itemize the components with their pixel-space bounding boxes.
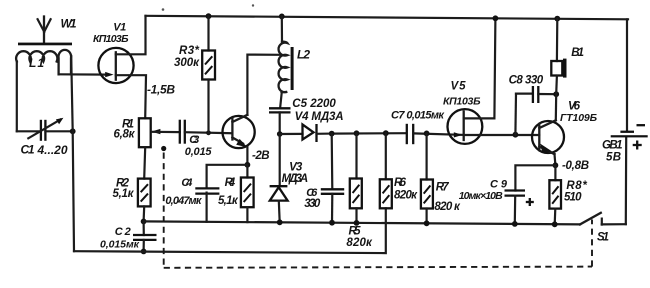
- svg-text:C5 2200: C5 2200: [292, 98, 336, 110]
- resistor R7 820k: [421, 131, 461, 227]
- svg-text:V6: V6: [568, 101, 581, 113]
- svg-text:V1: V1: [113, 22, 126, 34]
- capacitor C6 330: [304, 131, 344, 226]
- capacitor C7 0,015mk: [391, 110, 445, 145]
- svg-text:510: 510: [564, 192, 582, 204]
- wire battery to switch: [625, 137, 628, 224]
- svg-text:МД3А: МД3А: [282, 173, 309, 185]
- svg-text:C1: C1: [21, 143, 35, 157]
- resistor R5 820k: [346, 130, 373, 249]
- svg-text:10мк×10В: 10мк×10В: [459, 190, 503, 202]
- detector bus wire: [332, 132, 406, 135]
- capacitor C4 0,047mk: [165, 177, 219, 222]
- wire C7 to V5 gate: [414, 133, 464, 135]
- capacitor C2 0,015mk: [100, 219, 157, 255]
- resistor R2 5,1k: [113, 147, 151, 221]
- diode V4 MD3A: [280, 111, 344, 142]
- resistor R8* 510: [549, 165, 587, 227]
- transistor V2: [223, 115, 255, 148]
- wire V1 source down to R1: [116, 75, 146, 118]
- wire C3 to V2 base: [185, 132, 232, 133]
- wire coil tap down to node and ground rail: [71, 56, 73, 131]
- diode V3 MD3A: [270, 134, 309, 225]
- svg-text:330: 330: [304, 198, 321, 210]
- svg-text:L1: L1: [29, 56, 44, 70]
- svg-text:5,1к: 5,1к: [218, 195, 239, 207]
- svg-text:W1: W1: [61, 17, 77, 31]
- wire coil to V1 gate: [59, 73, 108, 75]
- node C8 left / base: [513, 132, 519, 138]
- wire tank bottom to C1: [17, 130, 40, 132]
- wire V2 collector to L2 tap: [247, 55, 280, 115]
- svg-text:C8 330: C8 330: [509, 75, 544, 87]
- svg-text:-2В: -2В: [252, 150, 270, 162]
- switch S1: [580, 213, 626, 244]
- antenna W1: [38, 17, 77, 43]
- svg-text:S1: S1: [597, 231, 609, 243]
- node R3 bottom: [206, 130, 211, 135]
- svg-text:ГТ109Б: ГТ109Б: [560, 112, 598, 124]
- inductor L1 with ferrite core: [16, 43, 72, 75]
- node V5 drain / top rail junction: [493, 15, 499, 21]
- svg-text:820к: 820к: [394, 190, 418, 202]
- svg-text:0,047мк: 0,047мк: [165, 195, 202, 207]
- inductor L2 with core: [279, 14, 311, 93]
- svg-text:GB1: GB1: [602, 140, 623, 152]
- wire V1 drain to top rail: [116, 16, 146, 55]
- svg-text:5В: 5В: [606, 152, 621, 164]
- battery GB1 5V: [602, 19, 648, 163]
- svg-text:0,015мк: 0,015мк: [100, 239, 140, 251]
- speck: [162, 8, 165, 11]
- svg-text:V3: V3: [289, 162, 303, 174]
- transistor V5 KP103B: [443, 81, 482, 144]
- svg-text:В1: В1: [571, 47, 584, 59]
- svg-text:C3: C3: [189, 134, 199, 146]
- resistor R6 820k: [380, 130, 418, 208]
- svg-text:C7 0,015мк: C7 0,015мк: [391, 110, 445, 122]
- svg-text:R6: R6: [394, 177, 407, 189]
- svg-text:300к: 300к: [174, 57, 200, 69]
- ground rail lower: [74, 208, 386, 253]
- svg-text:R7: R7: [436, 182, 450, 194]
- potentiometer R1 6,8k: [114, 118, 161, 147]
- transistor V6 GT109B: [532, 101, 598, 155]
- wire V6 emitter down: [553, 154, 556, 165]
- wire tank left leg: [16, 62, 18, 132]
- wire V5 source to V6 base: [464, 134, 540, 136]
- svg-text:5,1к: 5,1к: [113, 188, 135, 200]
- node V6 emitter: [553, 162, 559, 168]
- capacitor C8 330: [509, 75, 557, 135]
- svg-text:КП103Б: КП103Б: [93, 33, 129, 45]
- svg-text:КП103Б: КП103Б: [443, 96, 481, 108]
- mechanical link dashed R1 to S1: [164, 153, 592, 268]
- transistor V1 KP103B: [93, 22, 134, 84]
- svg-text:0,015: 0,015: [185, 146, 213, 158]
- mechanical link dot: [161, 146, 166, 151]
- svg-text:R3*: R3*: [179, 45, 200, 57]
- variable capacitor C1 4...20: [21, 118, 68, 157]
- svg-text:820 к: 820 к: [434, 201, 461, 213]
- resistor R4 5,1k: [218, 165, 254, 222]
- resistor R3* 300k: [174, 13, 215, 133]
- svg-text:R5: R5: [349, 226, 362, 238]
- speck: [252, 4, 254, 6]
- wire R1 wiper to C3: [152, 131, 180, 134]
- top supply rail: [146, 16, 629, 19]
- electrolytic C9 10mk x 10V: [459, 165, 556, 227]
- node detector: [277, 131, 283, 137]
- svg-text:V5: V5: [451, 81, 467, 93]
- wire V2 emitter down: [246, 147, 248, 165]
- node tank/ground: [70, 128, 76, 134]
- svg-text:6,8к: 6,8к: [114, 129, 136, 141]
- capacitor C5 2200: [269, 98, 336, 134]
- node V6 collector/B1: [553, 91, 559, 97]
- svg-text:C4: C4: [181, 177, 192, 189]
- svg-text:R8*: R8*: [566, 180, 587, 192]
- svg-text:-0,8В: -0,8В: [562, 160, 589, 172]
- wire L2 to C5: [280, 92, 282, 108]
- wire C1 to node: [45, 130, 72, 132]
- earphone B1: [551, 16, 584, 95]
- svg-text:4...20: 4...20: [37, 143, 68, 157]
- wire emitter node to C4: [207, 165, 248, 188]
- common rail: [144, 221, 580, 224]
- svg-text:-1,5В: -1,5В: [147, 83, 175, 97]
- wire V6 collector up: [555, 94, 558, 120]
- svg-text:R4: R4: [225, 177, 236, 189]
- svg-text:L2: L2: [297, 48, 310, 62]
- wire V5 drain to top rail: [464, 18, 496, 118]
- capacitor C3 0,015: [180, 120, 213, 158]
- node V2 emitter: [245, 162, 251, 168]
- svg-text:820к: 820к: [346, 237, 373, 249]
- svg-text:V4 МД3А: V4 МД3А: [295, 111, 344, 123]
